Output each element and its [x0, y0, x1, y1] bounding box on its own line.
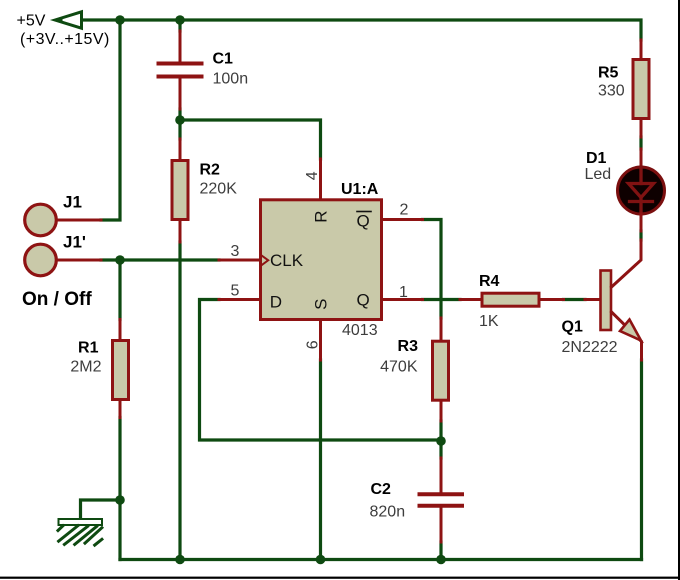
svg-text:100n: 100n	[213, 71, 249, 88]
resistor R2	[172, 139, 188, 242]
wire J1' horizontal to CLK	[101, 258, 219, 261]
wire Q to R4	[423, 298, 461, 301]
wire R5 to LED gap	[639, 137, 642, 149]
connector J1	[25, 204, 101, 236]
svg-text:5: 5	[231, 283, 240, 300]
diode D1 LED	[618, 149, 665, 231]
svg-text:6: 6	[305, 340, 322, 349]
svg-text:CLK: CLK	[270, 251, 304, 270]
wire C2 bottom to ground rail	[439, 542, 442, 560]
svg-text:470K: 470K	[380, 359, 418, 376]
wire C1 bottom to node	[178, 109, 181, 139]
wire LED to collector gap	[639, 231, 642, 240]
power terminal +5V arrow	[55, 12, 82, 28]
wire R4 to Q1 base	[564, 298, 586, 301]
junction top rail at x=120	[115, 15, 125, 25]
svg-text:3: 3	[231, 243, 240, 260]
svg-text:2: 2	[400, 202, 409, 219]
svg-text:R1: R1	[78, 340, 99, 357]
wire R1 bottom down to ground rail	[118, 418, 121, 560]
junction top rail at x=180	[175, 15, 185, 25]
svg-text:C1: C1	[213, 51, 234, 68]
wire C1 top stub	[178, 20, 181, 31]
svg-text:330: 330	[598, 83, 625, 100]
wire J1' node down to R1	[118, 260, 121, 320]
svg-text:On / Off: On / Off	[22, 289, 92, 310]
svg-text:D1: D1	[586, 150, 607, 167]
svg-text:R4: R4	[479, 273, 500, 290]
wire node to pin4	[180, 120, 321, 159]
transistor Q1	[585, 240, 642, 360]
junction rail at x=320	[316, 555, 326, 565]
svg-text:Q: Q	[357, 212, 370, 231]
wire J1 to +5V rail	[101, 20, 120, 220]
svg-text:R2: R2	[200, 162, 221, 179]
wire ground stub	[81, 500, 121, 519]
svg-text:R3: R3	[398, 338, 419, 355]
svg-text:R: R	[311, 210, 330, 222]
svg-text:4013: 4013	[342, 322, 378, 339]
op-amp U1 body 4013 flip-flop	[219, 159, 423, 360]
wire Q1 emitter to ground rail	[640, 360, 643, 560]
junction R3/C2/D node	[436, 436, 446, 446]
svg-text:1: 1	[399, 284, 408, 301]
svg-text:D: D	[270, 293, 282, 312]
junction rail at x=180	[175, 555, 185, 565]
svg-text:J1: J1	[63, 193, 82, 212]
svg-text:Q1: Q1	[562, 319, 583, 336]
svg-text:1K: 1K	[479, 313, 499, 330]
wire bottom ground rail	[120, 558, 642, 561]
connector J1'	[25, 244, 101, 276]
svg-text:+5V: +5V	[17, 13, 46, 30]
wire Qbar to R3	[423, 220, 442, 319]
resistor R4	[460, 293, 564, 306]
resistor R5	[633, 40, 649, 137]
wire D feedback loop	[200, 300, 442, 441]
svg-text:S: S	[311, 298, 330, 309]
svg-text:C2: C2	[371, 481, 392, 498]
wire top +5V rail	[82, 20, 641, 40]
wire R3 bottom to node	[439, 421, 442, 458]
junction node C1/R2/pin4	[175, 115, 185, 125]
svg-text:2N2222: 2N2222	[562, 339, 618, 356]
capacitor C2	[420, 458, 463, 542]
svg-text:(+3V..+15V): (+3V..+15V)	[20, 31, 110, 48]
svg-text:Led: Led	[585, 166, 612, 183]
svg-text:R5: R5	[598, 65, 619, 82]
junction rail at x=441	[436, 555, 446, 565]
ground	[58, 519, 102, 545]
wire pin6 to ground rail	[319, 360, 322, 560]
junction J1' node	[115, 255, 125, 265]
svg-text:J1': J1'	[63, 233, 86, 252]
pin name Qbar	[357, 212, 372, 231]
wire R2 bottom to ground rail	[178, 242, 181, 560]
resistor R1	[113, 320, 129, 418]
capacitor C1	[159, 31, 202, 109]
resistor R3	[433, 318, 449, 421]
svg-text:820n: 820n	[370, 504, 406, 521]
svg-text:Q: Q	[357, 291, 370, 310]
svg-text:220K: 220K	[200, 181, 238, 198]
svg-text:U1:A: U1:A	[341, 181, 379, 198]
svg-text:2M2: 2M2	[70, 359, 101, 376]
node label +5V text	[17, 13, 110, 49]
svg-text:4: 4	[304, 171, 321, 180]
junction ground stub node	[115, 495, 125, 505]
